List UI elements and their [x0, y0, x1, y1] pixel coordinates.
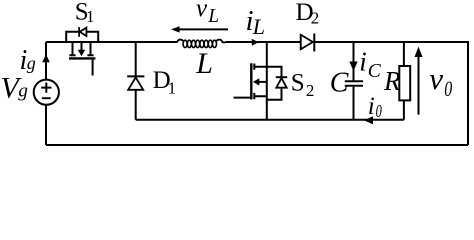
- svg-text:v: v: [196, 0, 208, 22]
- svg-text:C: C: [330, 68, 349, 99]
- inductor L: [177, 40, 226, 48]
- voltage arrow vL: [178, 28, 228, 30]
- wire left vertical lower: [45, 105, 47, 145]
- S2 body diode loop: [267, 67, 287, 100]
- resistor R: [399, 42, 410, 120]
- S1 body diode: [79, 27, 86, 37]
- svg-text:i: i: [359, 47, 367, 77]
- svg-text:1: 1: [168, 79, 177, 98]
- wire intermediate rail: [136, 119, 404, 121]
- wire top rail left: [46, 41, 177, 43]
- svg-text:v: v: [429, 61, 443, 96]
- current arrow iC: [349, 62, 357, 72]
- switch S1 MOSFET: [66, 32, 98, 76]
- svg-text:L: L: [207, 6, 219, 27]
- voltage arrow v0: [418, 55, 420, 115]
- wire bottom rail: [46, 144, 468, 146]
- svg-text:g: g: [18, 81, 28, 102]
- svg-text:g: g: [27, 53, 36, 73]
- current arrow iL: [252, 39, 259, 46]
- wire top rail right: [315, 41, 469, 43]
- wire top rail mid: [226, 41, 302, 43]
- svg-text:L: L: [195, 47, 213, 80]
- current arrow i0: [364, 116, 373, 124]
- wire right edge: [467, 41, 469, 145]
- svg-text:i: i: [368, 93, 375, 120]
- S1 mosfet arrow: [78, 50, 85, 56]
- wire left vertical upper: [45, 42, 47, 80]
- S2 mosfet arrow: [253, 78, 259, 85]
- svg-text:2: 2: [311, 9, 320, 28]
- svg-text:R: R: [383, 66, 401, 96]
- svg-text:L: L: [252, 14, 265, 39]
- current arrow ig: [45, 56, 47, 62]
- capacitor C: [345, 42, 363, 120]
- svg-text:2: 2: [306, 81, 315, 100]
- svg-text:S: S: [291, 70, 305, 97]
- svg-text:0: 0: [376, 101, 382, 121]
- svg-text:1: 1: [86, 7, 95, 26]
- voltage source Vg: [34, 80, 59, 105]
- diode D1: [127, 42, 144, 120]
- switch S2 MOSFET: [234, 42, 267, 120]
- svg-text:C: C: [368, 61, 382, 82]
- diode D2: [301, 34, 315, 52]
- svg-text:0: 0: [444, 76, 452, 101]
